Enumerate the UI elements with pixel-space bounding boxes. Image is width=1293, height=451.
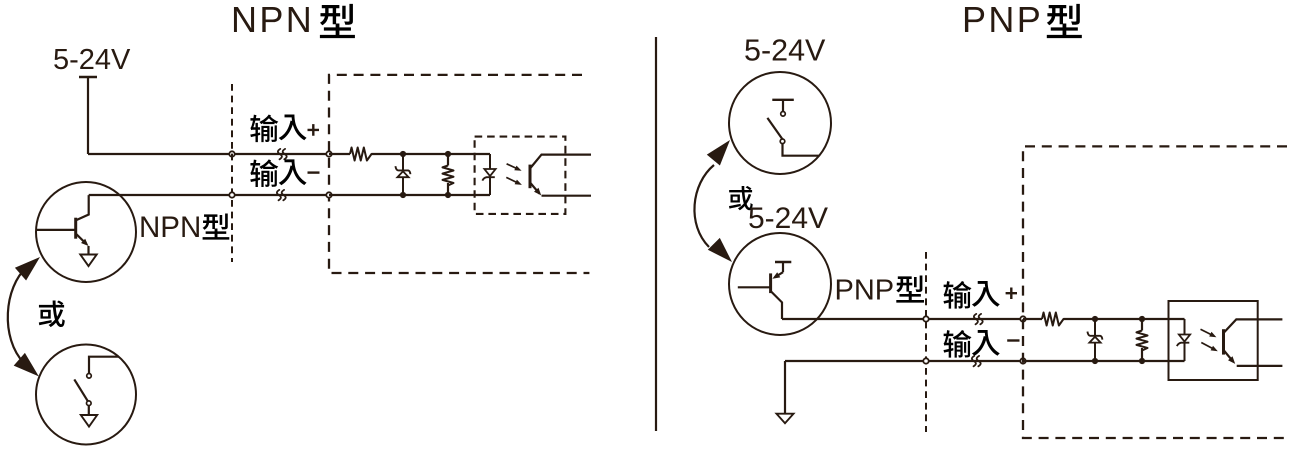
resistor R4 vertical <box>1137 331 1148 351</box>
power T-bar in PNP circle <box>775 261 791 263</box>
phototransistor Q2 emitter <box>530 183 540 194</box>
switch circle right <box>729 72 831 174</box>
wire ground drop right <box>784 361 786 414</box>
wire bottom row inside box <box>329 194 490 196</box>
dashed cable boundary line left <box>231 84 233 262</box>
transistor Q1 collector <box>76 195 89 220</box>
transistor Q1 emitter <box>76 234 87 244</box>
label input plus 入 <box>279 114 307 140</box>
node top wire right at box edge <box>1020 316 1025 321</box>
ground symbol switch left <box>81 415 97 427</box>
wire top input row <box>88 153 232 155</box>
or-arrow head top right <box>707 140 730 166</box>
wire top input row middle <box>232 153 329 155</box>
wire from 5-24V down <box>87 77 89 154</box>
or-arrow head bottom left <box>14 353 39 377</box>
label input plus sign <box>308 124 320 136</box>
node bottom wire right at box edge <box>1020 358 1025 363</box>
svg-text:5-24V: 5-24V <box>744 34 826 68</box>
phototransistor Q2 base bar <box>529 165 532 189</box>
light arrow 1 <box>507 164 519 170</box>
phototransistor Q2 collector <box>530 155 591 169</box>
junction R4 bottom <box>1139 358 1145 364</box>
label input plus right 入 <box>972 281 1000 307</box>
svg-text:5-24V: 5-24V <box>748 202 828 235</box>
label input plus right 输 <box>943 281 971 309</box>
wire bottom row right <box>785 360 926 362</box>
phototransistor Q4 base bar <box>1222 329 1225 354</box>
label PNP type kanji at circle <box>896 275 924 302</box>
phototransistor Q4 emitter <box>1224 350 1234 361</box>
node top wire at cable boundary <box>229 151 234 156</box>
wire top row right from collector <box>782 318 926 320</box>
transistor Q1 base bar <box>74 218 77 239</box>
transistor Q3 emitter diagonal <box>775 272 783 277</box>
transistor Q3 base bar <box>769 273 772 293</box>
label input minus sign <box>308 171 320 173</box>
wire bottom row right middle <box>926 360 1023 362</box>
switch stub from T-bar <box>782 100 784 112</box>
light arrow 3 <box>1201 329 1214 336</box>
junction D3 top <box>1092 316 1098 322</box>
svg-text:NPN: NPN <box>231 0 314 40</box>
svg-text:5-24V: 5-24V <box>53 44 131 76</box>
label input minus sign right <box>1007 339 1019 341</box>
label input minus right 入 <box>972 330 1000 356</box>
break mark top wire <box>278 149 287 159</box>
sensor circle PNP <box>729 233 831 335</box>
title NPN type kanji 型 <box>320 4 355 38</box>
optocoupler LED D2 <box>489 154 491 169</box>
switch outlet wire right <box>783 144 820 156</box>
wire into resistor R1 <box>329 153 350 155</box>
PNP emitter stub <box>782 262 784 272</box>
junction D1 top <box>400 151 406 157</box>
label input minus 输 <box>250 159 278 187</box>
label input minus 入 <box>279 159 307 185</box>
switch blade <box>74 379 88 402</box>
or-arrow head top left <box>15 257 40 281</box>
label input plus 输 <box>250 115 278 143</box>
junction R4 top <box>1139 316 1145 322</box>
optocoupler LED D4 <box>1184 319 1186 335</box>
resistor R3 <box>1042 313 1065 326</box>
switch blade right <box>767 118 782 139</box>
dashed device outline right <box>1023 146 1287 438</box>
node bottom wire at box edge <box>326 192 331 197</box>
node top wire at box edge <box>326 151 331 156</box>
junction R2 top <box>445 151 451 157</box>
switch moving contact <box>87 401 92 406</box>
svg-text:PNP: PNP <box>835 274 895 306</box>
break mark bottom wire right <box>972 356 981 366</box>
wire bottom row into box <box>1023 360 1185 362</box>
svg-text:NPN: NPN <box>139 211 201 244</box>
or-arrow arc right <box>694 165 714 247</box>
switch moving contact right <box>780 139 785 144</box>
transistor Q3 collector <box>771 291 782 319</box>
optocoupler box U2 <box>1169 301 1258 380</box>
switch top wire <box>89 357 119 374</box>
node top wire right at cable boundary <box>923 316 928 321</box>
junction D1 bottom <box>400 192 406 198</box>
node bottom wire right at cable boundary <box>923 358 928 363</box>
label NPN type kanji at circle <box>203 213 230 239</box>
zener diode D3 <box>1094 319 1096 336</box>
switch fixed contact <box>87 374 92 379</box>
resistor R1 <box>350 148 373 161</box>
label 或 (or) right <box>729 186 753 210</box>
label input minus right 输 <box>943 330 971 358</box>
wire output emitter row <box>542 195 592 197</box>
zener diode D1 <box>402 154 404 170</box>
or-arrow head bottom right <box>708 238 732 262</box>
ground symbol Q1 <box>80 255 96 267</box>
dashed device outline box left <box>329 75 589 273</box>
title PNP type kanji 型 <box>1047 4 1082 38</box>
switch wire to ground <box>88 406 90 416</box>
wire top row right middle <box>926 318 1023 320</box>
label input plus sign right <box>1006 288 1017 300</box>
or-arrow arc left <box>8 267 27 363</box>
junction D3 bottom <box>1092 358 1098 364</box>
junction R2 bottom <box>445 192 451 198</box>
resistor R2 vertical <box>443 166 454 186</box>
switch fixed contact right <box>781 112 786 117</box>
light arrow 2 <box>506 177 519 183</box>
wire into resistor R3 <box>1023 318 1042 320</box>
transistor Q1 base lead <box>37 229 76 231</box>
transistor Q3 base lead <box>738 286 771 288</box>
svg-text:PNP: PNP <box>962 0 1043 40</box>
label 或 (or) left <box>39 301 65 328</box>
break mark top wire right <box>974 314 983 324</box>
power T-bar in switch circle <box>772 99 794 101</box>
switch circle left <box>36 345 136 445</box>
sensor circle NPN <box>36 182 136 282</box>
divider line between diagrams <box>655 37 657 431</box>
light arrow 4 <box>1201 343 1215 350</box>
dashed cable boundary line right <box>925 252 927 432</box>
break mark bottom wire <box>277 190 286 200</box>
dashed optocoupler box U1 <box>475 137 566 214</box>
wire R3 to box <box>1064 318 1185 320</box>
power rail 5-24V T-bar <box>79 76 97 78</box>
wire output emitter row right <box>1237 365 1283 367</box>
wire bottom input row middle <box>232 194 329 196</box>
phototransistor Q4 collector <box>1224 319 1283 333</box>
wire R1 to LED corner <box>372 153 491 155</box>
wire emitter to ground <box>87 246 89 255</box>
ground symbol right <box>777 414 794 424</box>
wire bottom input row <box>89 194 232 196</box>
node bottom wire at cable boundary <box>229 192 234 197</box>
